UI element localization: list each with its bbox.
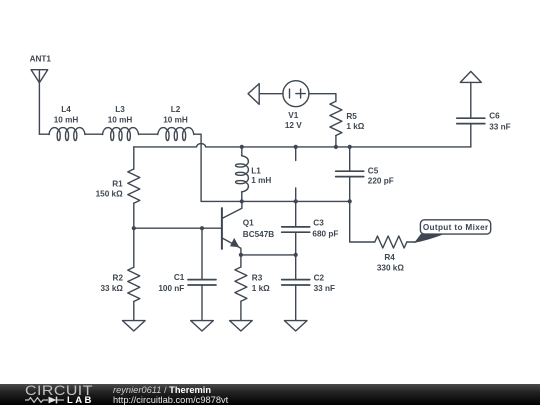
node C5 top xyxy=(348,145,352,149)
svg-text:R1: R1 xyxy=(112,180,123,189)
svg-text:150 kΩ: 150 kΩ xyxy=(96,190,123,199)
voltage source V1 xyxy=(283,81,309,130)
svg-text:10 mH: 10 mH xyxy=(163,115,188,124)
antenna ANT1 xyxy=(30,54,52,134)
node C1 tap xyxy=(200,226,204,230)
svg-text:330 kΩ: 330 kΩ xyxy=(377,264,404,273)
inductor L2 xyxy=(158,105,194,141)
svg-text:V1: V1 xyxy=(288,111,298,120)
CircuitLab logo xyxy=(25,385,94,405)
svg-text:R2: R2 xyxy=(113,274,124,283)
wire xyxy=(39,133,49,135)
wire top rail xyxy=(134,144,471,147)
inductor L4 xyxy=(49,105,85,141)
node R5 rail junction xyxy=(334,145,338,149)
svg-text:10 mH: 10 mH xyxy=(54,115,79,124)
wire xyxy=(194,134,201,201)
svg-text:L3: L3 xyxy=(115,105,125,114)
svg-text:C1: C1 xyxy=(174,273,185,282)
svg-text:C3: C3 xyxy=(313,218,324,227)
node L1 bottom / collector xyxy=(240,199,244,203)
capacitor C3 xyxy=(282,188,339,255)
footer bar xyxy=(0,384,540,405)
svg-text:10 mH: 10 mH xyxy=(108,115,133,124)
resistor R3 xyxy=(235,255,270,321)
resistor R2 xyxy=(101,228,140,320)
svg-text:Q1: Q1 xyxy=(243,219,254,228)
svg-text:Output to Mixer: Output to Mixer xyxy=(423,223,489,232)
capacitor C1 xyxy=(158,228,216,320)
svg-text:R5: R5 xyxy=(346,112,357,121)
svg-text:R4: R4 xyxy=(384,253,395,262)
svg-text:33 nF: 33 nF xyxy=(314,284,335,293)
capacitor C5 xyxy=(336,147,394,202)
capacitor C6 xyxy=(457,112,511,147)
svg-text:33 kΩ: 33 kΩ xyxy=(101,284,124,293)
svg-text:1 mH: 1 mH xyxy=(251,176,271,185)
svg-text:R3: R3 xyxy=(252,273,263,282)
ground xyxy=(123,321,146,331)
node C5 bottom xyxy=(348,199,352,203)
svg-text:L4: L4 xyxy=(61,105,71,114)
wire base xyxy=(134,227,222,229)
inductor L3 xyxy=(102,105,138,141)
node net-flag up xyxy=(460,71,481,118)
svg-text:C5: C5 xyxy=(368,166,379,175)
svg-text:33 nF: 33 nF xyxy=(489,122,510,131)
resistor R4 xyxy=(350,201,416,272)
wire xyxy=(139,133,158,135)
resistor R5 xyxy=(330,101,365,147)
svg-text:12 V: 12 V xyxy=(285,121,302,130)
svg-text:1 kΩ: 1 kΩ xyxy=(346,122,364,131)
wire xyxy=(85,133,103,135)
svg-text:220 pF: 220 pF xyxy=(368,176,394,185)
wire lower rail xyxy=(201,200,350,202)
svg-text:BC547B: BC547B xyxy=(243,230,274,239)
resistor R1 xyxy=(96,147,140,228)
ground xyxy=(230,321,253,331)
ground xyxy=(191,321,214,331)
svg-text:100 nF: 100 nF xyxy=(158,284,184,293)
svg-text:L2: L2 xyxy=(171,105,181,114)
node C3 top rail junction xyxy=(294,199,298,203)
svg-text:ANT1: ANT1 xyxy=(30,54,52,63)
svg-text:680 pF: 680 pF xyxy=(312,230,338,239)
node C2 junction xyxy=(294,253,298,257)
wire emitter xyxy=(241,254,296,256)
ground xyxy=(284,321,307,331)
node stub junction xyxy=(294,145,298,149)
node Output to Mixer flag xyxy=(414,220,491,243)
svg-text:C6: C6 xyxy=(489,112,500,121)
node base-R1 junction xyxy=(132,226,136,230)
node L1 top xyxy=(240,145,244,149)
svg-text:1 kΩ: 1 kΩ xyxy=(252,284,270,293)
node emitter junction xyxy=(239,253,243,257)
node net-flag left xyxy=(248,84,283,105)
wire xyxy=(309,94,336,102)
svg-text:C2: C2 xyxy=(314,273,325,282)
wire stub xyxy=(295,147,297,161)
transistor Q1 xyxy=(222,201,274,255)
capacitor C2 xyxy=(282,255,335,321)
inductor L1 xyxy=(236,147,272,202)
svg-text:L1: L1 xyxy=(251,166,261,175)
